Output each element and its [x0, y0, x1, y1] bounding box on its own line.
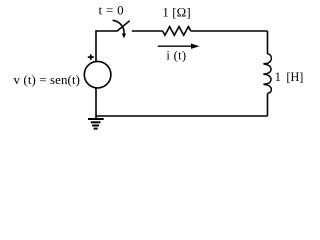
wire: inductor to bottom-right corner: [267, 93, 269, 116]
current arrow i(t) shaft: [158, 45, 193, 47]
svg-text:1 [Ω]: 1 [Ω]: [162, 6, 190, 20]
ground bar 2: [91, 121, 101, 123]
ground bar 1: [88, 118, 104, 120]
wire: top-right vertical down to inductor: [267, 31, 269, 54]
ground bar 4: [94, 128, 98, 130]
switch S1 blade (open, hinged at left contact): [117, 21, 130, 32]
switch S1 closing-motion arc: [113, 20, 125, 33]
wire: source bottom to ground junction: [95, 88, 97, 118]
switch S1 arrowhead: [122, 34, 126, 39]
ground bar 3: [92, 125, 99, 127]
wire: bottom horizontal: [96, 115, 268, 117]
svg-text:v (t) = sen(t): v (t) = sen(t): [14, 73, 81, 87]
wire: switch right contact to resistor: [132, 30, 163, 32]
wire: top-left vertical (source to top-left corner): [96, 31, 117, 62]
svg-text:[H]: [H]: [286, 70, 303, 84]
wire: resistor to top-right corner: [191, 30, 268, 32]
voltage source V1 plus polarity mark: [88, 54, 94, 60]
svg-text:i (t): i (t): [166, 49, 186, 63]
inductor L1 coil: [264, 54, 272, 94]
svg-text:1: 1: [275, 70, 281, 84]
current arrow i(t) head: [191, 44, 200, 49]
svg-text:t = 0: t = 0: [99, 2, 124, 17]
resistor R1 zigzag: [163, 27, 191, 36]
voltage source V1 circle: [84, 61, 111, 88]
